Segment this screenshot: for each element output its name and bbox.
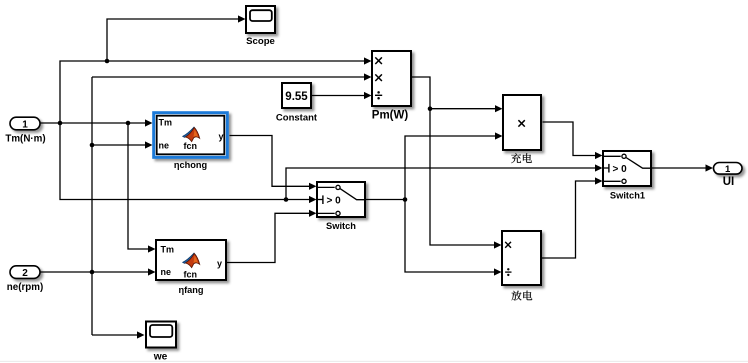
matlab logo nchong [183, 127, 200, 142]
wire: Switch out up to chongdian input 2 [405, 132, 503, 199]
scope Scope [246, 6, 275, 33]
MATLAB function block nfang [156, 240, 226, 280]
node: junction at (430,108.7) [428, 106, 433, 111]
svg-text:Pm(W): Pm(W) [372, 110, 409, 122]
wire: ne to Pm(W) input 2 [92, 73, 372, 80]
svg-text:ne: ne [159, 141, 170, 151]
label Tm(N·m) [5, 134, 45, 145]
switch Switch1 [603, 151, 651, 186]
svg-text:> 0: > 0 [327, 195, 342, 206]
wire: Tm branch up to Pm(W) input 1 [60, 57, 372, 123]
label nfang [178, 285, 203, 295]
wire: Tm branch down to Switch control [60, 123, 317, 203]
svg-text:9.55: 9.55 [285, 91, 308, 103]
wire: Tm branch down to nfang Tm [128, 123, 156, 253]
label fangdian 放电 [512, 291, 533, 301]
wire: ne down to we scope [92, 331, 145, 338]
wire: Switch1 output to Out1 [652, 164, 714, 171]
node: ne junction at (92,145) [90, 143, 95, 148]
scope we [146, 322, 176, 348]
svg-text:1: 1 [22, 119, 28, 130]
svg-text:UI: UI [723, 176, 735, 188]
wire: Switch output trunk [366, 199, 406, 201]
svg-text:> 0: > 0 [613, 164, 628, 175]
node: junction at (286,199.5) [284, 197, 289, 202]
output port 1 oval [714, 163, 743, 175]
wire: nchong y to Switch input 1 [230, 136, 317, 190]
product block chongdian [503, 95, 541, 150]
svg-text:Switch1: Switch1 [610, 190, 645, 200]
svg-text:fcn: fcn [184, 270, 198, 280]
label Pm(W) [372, 110, 409, 122]
wire: Switch out down to fangdian input 2 [405, 200, 502, 276]
svg-text:1: 1 [725, 164, 731, 175]
label we [153, 352, 168, 363]
label nchong [174, 160, 207, 170]
MATLAB function block nchong (selected, blue border) [154, 113, 228, 158]
svg-text:we: we [153, 352, 168, 363]
input port 1 oval [10, 117, 40, 130]
wire: ne to nchong ne [92, 141, 153, 148]
wire: Pm(W) down to fangdian input 1 [430, 109, 502, 249]
label UI [723, 176, 735, 188]
svg-text:fcn: fcn [184, 141, 198, 151]
matlab logo nfang [183, 253, 200, 268]
label Switch1 [610, 190, 645, 200]
svg-text:ne: ne [161, 267, 172, 277]
node: Tm line junction at x60 [58, 121, 63, 126]
svg-text:Tm: Tm [159, 118, 173, 128]
svg-text:y: y [217, 258, 222, 268]
label Switch [326, 221, 356, 231]
label ne(rpm) [7, 282, 43, 293]
wire: In1 Tm to nchong Tm [41, 119, 153, 126]
svg-text:y: y [219, 131, 224, 141]
svg-text:2: 2 [22, 268, 28, 279]
svg-text:ηchong: ηchong [174, 160, 207, 170]
product block Pm(W) [372, 51, 411, 106]
label Constant [276, 113, 318, 124]
label Scope [246, 36, 275, 47]
wire: ne vertical trunk [91, 77, 93, 335]
svg-text:Tm: Tm [161, 245, 175, 255]
svg-text:Constant: Constant [276, 113, 318, 124]
node: Tm line junction at x128 [126, 121, 131, 126]
node: ne junction at (92,272) [90, 270, 95, 275]
wire: branch up to Scope [107, 15, 246, 61]
product block fangdian [502, 231, 541, 285]
wire: Pm(W) output [412, 77, 503, 112]
wire: nfang y to Switch input 3 [227, 210, 317, 263]
wire: chongdian out to Switch1 input 1 [543, 122, 603, 159]
node: junction at (107,61) [105, 59, 110, 64]
switch Switch [317, 182, 365, 217]
input port 2 oval [10, 266, 40, 279]
svg-text:Switch: Switch [326, 221, 356, 231]
svg-text:ne(rpm): ne(rpm) [7, 282, 43, 293]
svg-text:Scope: Scope [246, 36, 275, 47]
node: junction at (405,199.5) [403, 197, 408, 202]
svg-text:Tm(N·m): Tm(N·m) [5, 134, 45, 145]
svg-text:ηfang: ηfang [178, 285, 203, 295]
wire: In2 ne to nfang ne [41, 268, 156, 275]
bottom separator line [0, 361, 748, 362]
wire: Constant to Pm(W) input 3 [312, 92, 372, 99]
wire: fangdian out to Switch1 input 3 [542, 177, 603, 258]
label chongdian 充电 [511, 153, 532, 163]
constant 9.55 [282, 83, 311, 108]
wire: control branch up/right to Switch1 control [286, 164, 603, 199]
